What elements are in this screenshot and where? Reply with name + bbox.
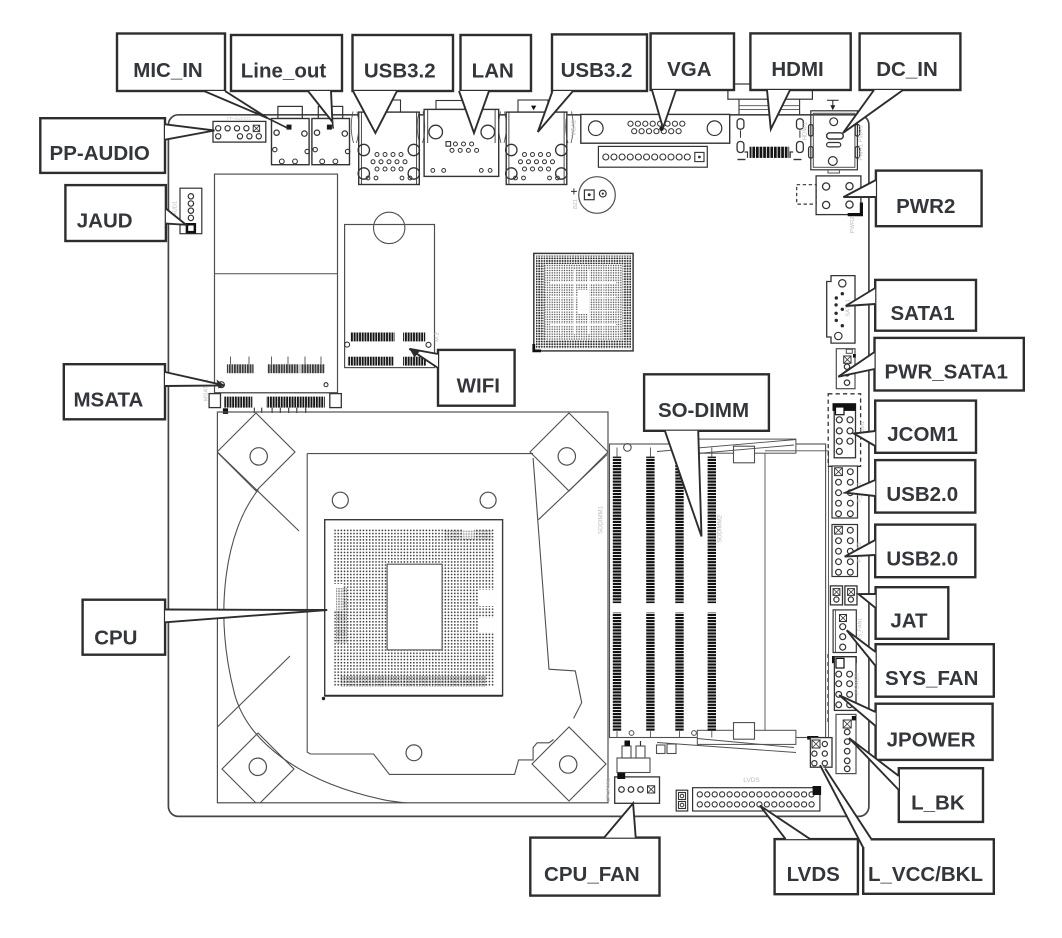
svg-text:SYS_FAN: SYS_FAN <box>885 667 978 690</box>
svg-text:LVDS: LVDS <box>743 777 760 784</box>
svg-text:VGA: VGA <box>667 58 712 81</box>
svg-text:USB2.0: USB2.0 <box>886 547 958 570</box>
svg-text:SODIMM1: SODIMM1 <box>599 505 605 534</box>
svg-text:SATA1: SATA1 <box>846 299 852 317</box>
svg-text:HDMI: HDMI <box>771 58 823 81</box>
svg-text:L_BK: L_BK <box>911 792 965 815</box>
svg-text:USB3.2: USB3.2 <box>364 60 436 83</box>
svg-text:VGA1: VGA1 <box>572 119 578 136</box>
svg-text:DC_IN: DC_IN <box>876 58 938 81</box>
svg-text:USB2.0: USB2.0 <box>886 483 958 506</box>
svg-text:CPUFAN1: CPUFAN1 <box>606 778 612 802</box>
svg-text:PWR2: PWR2 <box>896 195 955 218</box>
svg-text:BZ1: BZ1 <box>573 199 579 209</box>
svg-text:SO-DIMM: SO-DIMM <box>658 399 749 422</box>
svg-text:MSATA: MSATA <box>73 388 143 411</box>
svg-text:LAN: LAN <box>472 60 514 83</box>
svg-text:PWR2: PWR2 <box>850 217 856 234</box>
svg-text:JCOM1: JCOM1 <box>887 423 958 446</box>
svg-text:CPU: CPU <box>94 627 137 650</box>
svg-text:JPOWER: JPOWER <box>855 673 861 695</box>
svg-text:FP-AUDIO1: FP-AUDIO1 <box>227 116 252 121</box>
svg-text:L_VCC/BKL: L_VCC/BKL <box>868 863 983 886</box>
svg-text:JPOWER: JPOWER <box>887 728 976 751</box>
svg-text:M.2: M.2 <box>435 332 441 342</box>
svg-text:MIC_IN: MIC_IN <box>133 59 202 82</box>
svg-text:PP-AUDIO: PP-AUDIO <box>50 142 150 165</box>
svg-text:CPU_FAN: CPU_FAN <box>544 863 640 886</box>
svg-text:USB3.2: USB3.2 <box>561 59 633 82</box>
svg-text:JAUD: JAUD <box>77 210 133 233</box>
svg-text:JAT: JAT <box>890 610 928 633</box>
svg-text:SODIMM2: SODIMM2 <box>718 514 724 543</box>
svg-text:HDMI1: HDMI1 <box>803 121 809 140</box>
svg-text:LVDS: LVDS <box>787 863 840 886</box>
svg-text:Line_out: Line_out <box>241 60 327 83</box>
svg-text:SATA1: SATA1 <box>891 302 955 325</box>
svg-text:WIFI: WIFI <box>457 374 500 397</box>
svg-text:PWR_SATA1: PWR_SATA1 <box>884 361 1007 384</box>
svg-text:PWR1 PWR3: PWR1 PWR3 <box>859 125 865 160</box>
